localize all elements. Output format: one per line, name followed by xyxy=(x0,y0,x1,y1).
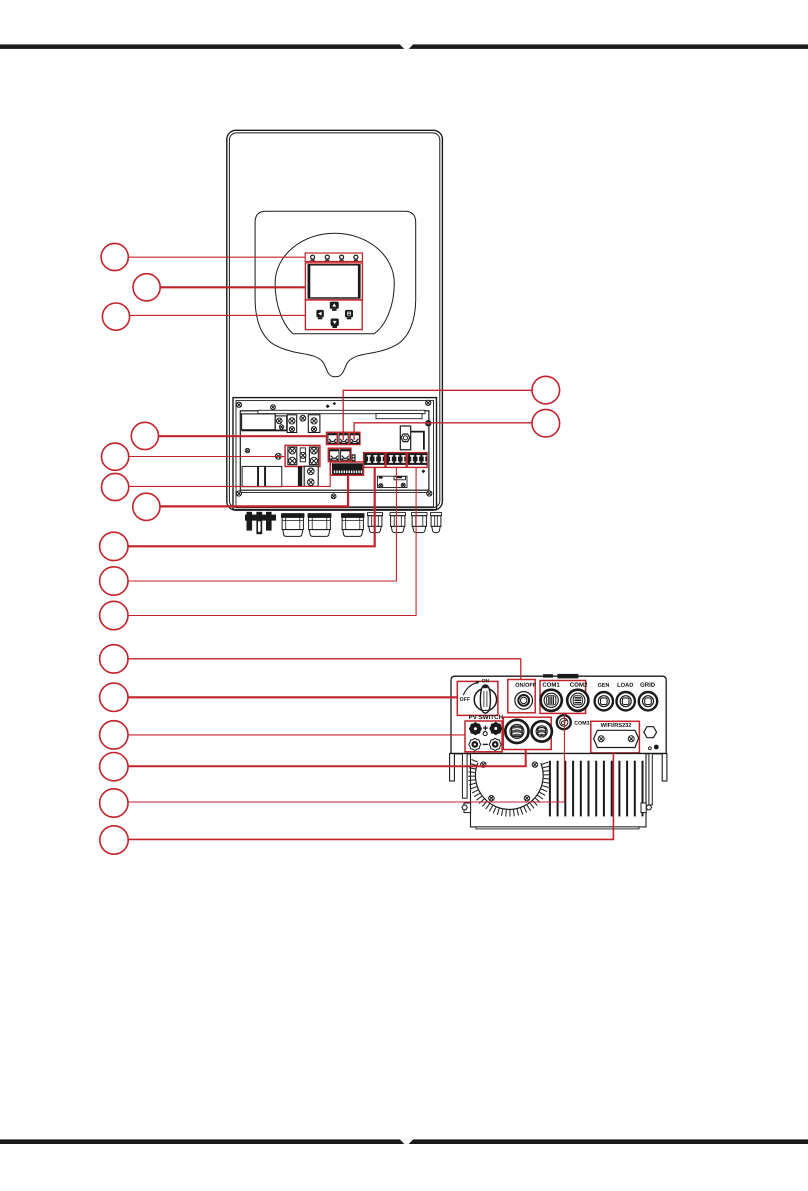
left mount tab xyxy=(464,803,471,813)
callout circle 11 xyxy=(100,645,128,673)
callout circle 12 xyxy=(100,683,128,711)
wall mount bracket xyxy=(245,515,276,521)
lower-left module 3 xyxy=(266,466,282,486)
battery terminal left block xyxy=(288,447,297,465)
AC terminal block 2 xyxy=(308,415,320,433)
compartment corner screws xyxy=(236,402,241,407)
wiring compartment inner frame xyxy=(236,401,434,507)
screw between AC blocks xyxy=(300,415,306,421)
battery terminal center strip xyxy=(300,448,305,462)
callout circle 3 xyxy=(102,303,129,330)
LED indicator 3 xyxy=(340,255,344,259)
CT terminal block 2 xyxy=(339,434,348,444)
heatsink top line xyxy=(450,753,667,755)
ON/OFF button rings xyxy=(515,692,533,710)
dry contact block 1 xyxy=(330,450,339,461)
hex plug xyxy=(644,727,657,738)
callout circle 9 xyxy=(100,567,128,595)
lower-left module 2 xyxy=(259,466,265,486)
cable gland 4 xyxy=(368,513,383,516)
DC breaker block xyxy=(242,414,276,430)
dry contact block 2 xyxy=(341,450,350,461)
label LOAD xyxy=(618,683,634,687)
load terminal block xyxy=(387,453,406,465)
label COM1 xyxy=(543,682,560,686)
lower-left module 1 xyxy=(242,466,258,486)
PV switch arc arrow xyxy=(463,683,477,696)
right mount tab xyxy=(641,803,646,813)
LED indicators red frame xyxy=(305,253,362,262)
label PV SWITCH xyxy=(469,715,503,719)
top header rule xyxy=(0,44,808,49)
wire 12 to PV switch xyxy=(128,696,457,698)
callout circle 6 xyxy=(102,473,129,500)
communication terminal strip xyxy=(332,463,363,474)
callout circle 14 xyxy=(100,753,128,781)
LCD display red frame xyxy=(305,263,362,300)
label GRID xyxy=(640,682,655,686)
wiring compartment inner panel xyxy=(240,411,429,490)
bottom footer rule xyxy=(0,1139,808,1144)
power terminal red frame xyxy=(364,453,428,468)
callout circle B xyxy=(532,409,560,437)
small parts below blocks xyxy=(378,476,408,487)
COM1 connector xyxy=(541,690,562,711)
callout circle 5 xyxy=(102,443,129,470)
bus bar below battery terminals xyxy=(298,466,302,486)
wire 10 to gen terminal xyxy=(128,467,416,615)
compartment diamond marks xyxy=(326,404,330,408)
PV switch red frame xyxy=(457,681,498,715)
cable gland 7 xyxy=(431,513,442,516)
inverter front body inner outline xyxy=(229,133,439,508)
small hole xyxy=(649,747,652,750)
label WIFI/RS232 xyxy=(601,723,632,727)
small black connector xyxy=(352,454,356,461)
button up xyxy=(330,302,339,309)
top rule center notch xyxy=(400,44,413,51)
right bracket with nut xyxy=(400,426,410,450)
wire 11 to ON/OFF xyxy=(128,659,521,680)
label ON xyxy=(482,679,489,683)
bottom rule center notch xyxy=(400,1139,413,1146)
button down xyxy=(331,319,339,327)
wire 7 to comm strip xyxy=(160,475,348,506)
wire 1 to LED frame xyxy=(128,256,305,258)
LED indicator 4 xyxy=(354,255,358,259)
battery connector 1 xyxy=(505,720,528,743)
PV2 minus connector xyxy=(489,738,501,750)
LOAD connector xyxy=(617,692,635,710)
fan recess radial fins xyxy=(468,759,550,816)
screw left of battery frame xyxy=(275,453,281,459)
callout circle A xyxy=(532,376,560,404)
wire 13 to PV connectors xyxy=(128,734,465,736)
fan recess arc xyxy=(475,763,543,809)
COM3 connector xyxy=(557,715,571,729)
label COM3 xyxy=(574,721,589,725)
heatsink right gap fin xyxy=(649,754,652,805)
label ON/OFF xyxy=(515,683,536,687)
CT terminal block 3 xyxy=(350,434,359,444)
battery terminal right block xyxy=(309,447,318,465)
callout circle 7 xyxy=(133,493,160,520)
bottom view panel outline xyxy=(451,676,666,753)
function buttons red frame xyxy=(305,300,362,330)
communication strip red frame xyxy=(330,462,363,475)
fan screws xyxy=(481,762,486,767)
COM1 COM2 red frame xyxy=(540,681,586,714)
small dot xyxy=(654,745,659,750)
callout circle 8 xyxy=(100,532,128,560)
button left xyxy=(316,310,323,317)
wire 2 to LCD frame xyxy=(160,286,305,288)
inverter front body outer outline xyxy=(227,130,443,510)
wire 3 to buttons frame xyxy=(130,314,306,316)
callout circle 13 xyxy=(100,721,128,749)
wire B to CT frame top 2 xyxy=(354,423,532,440)
cable gland 3 xyxy=(342,514,365,518)
heatsink main body xyxy=(471,754,647,827)
heatsink bottom lip xyxy=(476,827,639,829)
heatsink fins xyxy=(549,761,551,817)
callout circle 15 xyxy=(100,789,128,817)
heatsink thin fin left xyxy=(462,754,467,799)
AC terminal block 1 xyxy=(287,415,297,433)
PV1 minus connector xyxy=(469,738,481,750)
dry contact red frame (2 blocks) xyxy=(328,448,351,461)
wire 16 to WIFI frame xyxy=(128,753,613,840)
grid terminal block xyxy=(364,453,384,465)
LCD display screen xyxy=(308,265,359,298)
battery connectors red frame xyxy=(503,717,551,749)
callout circle 16 xyxy=(100,826,128,854)
LED indicator 1 xyxy=(311,255,315,259)
callout circle 2 xyxy=(133,274,160,301)
wire A to CT frame top xyxy=(343,390,532,440)
PV2 plus connector xyxy=(490,722,502,734)
LED indicator 2 xyxy=(325,255,329,259)
label COM2 xyxy=(570,682,587,686)
CT terminal red frame (3 blocks) xyxy=(327,432,360,444)
battery connector 2 xyxy=(532,721,552,741)
GRID connector xyxy=(639,692,657,710)
wire 8 to grid terminal xyxy=(128,467,375,546)
cable gland 6 xyxy=(412,513,428,516)
wiring compartment outer frame xyxy=(233,398,437,510)
label GEN xyxy=(598,683,609,687)
cable gland 2 xyxy=(308,514,331,518)
PV switch rotary knob xyxy=(474,688,496,710)
callout circle 10 xyxy=(100,601,128,629)
callout circle 1 xyxy=(101,243,128,270)
ON/OFF red frame xyxy=(508,680,535,713)
terminal rail cover strip xyxy=(258,410,425,413)
minus mark xyxy=(483,743,488,745)
COM2 connector xyxy=(567,690,588,711)
CT terminal block 1 xyxy=(328,434,337,444)
round display bezel outline xyxy=(275,233,394,333)
label OFF xyxy=(460,697,470,701)
wire 6 to dry contact xyxy=(129,462,331,487)
GEN connector xyxy=(595,692,613,710)
callout circle 4 xyxy=(131,422,158,449)
battery terminal red frame xyxy=(285,445,320,466)
wire 14 to battery connectors xyxy=(128,750,526,767)
screw at body edge crossed by wire B xyxy=(425,420,431,426)
top edge tick marks xyxy=(543,674,553,677)
capacitor above blocks xyxy=(401,440,409,450)
cable gland 5 xyxy=(390,513,406,516)
wire 5 to battery terminals xyxy=(129,456,285,458)
heatsink left flange xyxy=(450,754,455,781)
D-sub connector xyxy=(594,730,639,747)
cable gland 1 xyxy=(282,514,305,518)
plus mark xyxy=(483,726,488,731)
button enter xyxy=(345,310,353,317)
WIFI/RS232 red frame xyxy=(591,721,640,753)
gen terminal block xyxy=(408,453,427,465)
small screw box xyxy=(275,416,286,430)
front face molding outline xyxy=(255,211,416,376)
wire 9 to load terminal xyxy=(128,467,396,581)
heatsink right flange xyxy=(662,754,667,781)
PV connectors red frame xyxy=(465,721,502,752)
PV1 plus connector xyxy=(469,723,481,735)
PV switch lever xyxy=(480,685,490,713)
wire 15 to COM frame xyxy=(128,713,564,802)
wire 4 to CT frame xyxy=(159,435,327,437)
